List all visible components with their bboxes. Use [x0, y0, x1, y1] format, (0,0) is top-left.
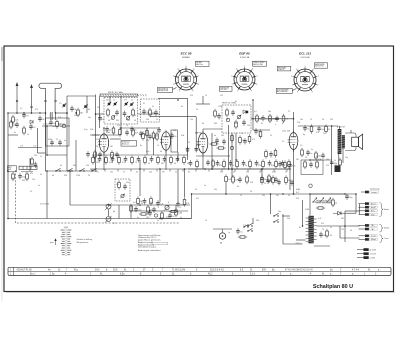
wire vertical x184 — [184, 169, 186, 197]
oscillator coil L2 — [111, 116, 115, 120]
wire vertical x196 — [195, 117, 197, 152]
svg-text:9: 9 — [251, 91, 252, 93]
wire phono bus — [213, 228, 232, 230]
svg-text:2: 2 — [173, 84, 174, 86]
svg-text:4,7k: 4,7k — [122, 162, 125, 164]
resistor R27 — [256, 114, 262, 123]
label box at ECL 113 top right — [315, 63, 328, 68]
svg-text:A 505-11: A 505-11 — [122, 143, 129, 146]
svg-text:60: 60 — [52, 175, 54, 177]
phono jack J1 — [219, 229, 225, 239]
svg-text:70: 70 — [123, 172, 125, 174]
capacitor C49 — [189, 160, 193, 166]
svg-text:Schaltplan 80 U: Schaltplan 80 U — [313, 284, 353, 290]
wire vertical x331 — [331, 126, 333, 175]
wire vertical feeder x95 — [95, 95, 97, 171]
svg-text:0,1µ: 0,1µ — [146, 151, 149, 153]
wire to S2 — [252, 218, 254, 224]
resistor R51 — [223, 159, 226, 168]
svg-text:5n: 5n — [180, 217, 182, 219]
svg-text:10k: 10k — [214, 189, 217, 191]
wire between pots — [108, 209, 110, 216]
svg-text:47k: 47k — [252, 139, 255, 141]
svg-text:470: 470 — [250, 182, 253, 184]
svg-text:470: 470 — [220, 172, 223, 174]
wire y118.8 af bus — [251, 118, 294, 120]
resistor R53 — [236, 159, 239, 168]
resistor R77 — [259, 129, 262, 138]
IF transformer can 2 (dashed) — [141, 99, 160, 122]
FM dipole antenna — [39, 83, 62, 122]
resistor R40 — [326, 229, 329, 238]
wire to terminal group 1 — [345, 210, 360, 212]
resistor R49 — [196, 159, 199, 168]
capacitor C11 — [139, 131, 145, 137]
svg-text:L 71: L 71 — [20, 146, 23, 148]
capacitor C77 — [269, 151, 275, 157]
svg-text:gedr.: gedr. — [50, 241, 54, 244]
capacitor C20 — [137, 156, 141, 162]
svg-text:8,5a: 8,5a — [120, 274, 125, 276]
resistor R30 — [310, 124, 313, 133]
wire V3 anode up — [202, 129, 204, 133]
wire tube V2 cathode down — [165, 150, 167, 170]
potentiometer P2 tone — [105, 216, 112, 223]
capacitor C30 — [261, 115, 267, 121]
svg-text:8n: 8n — [264, 179, 266, 181]
svg-text:6: 6 — [252, 69, 253, 71]
svg-text:8: 8 — [198, 84, 199, 86]
svg-text:Ant L: Ant L — [371, 210, 375, 213]
svg-text:TA 1: TA 1 — [371, 224, 374, 227]
svg-text:7: 7 — [318, 76, 319, 78]
svg-text:70: 70 — [26, 116, 28, 118]
svg-text:40: 40 — [88, 109, 90, 111]
svg-text:70: 70 — [135, 162, 137, 164]
wire y194 seg r — [310, 193, 345, 195]
wire x176 stub — [175, 205, 177, 211]
voltage measurement note — [138, 234, 168, 252]
wire vertical x232 — [231, 133, 233, 169]
svg-text:47k: 47k — [30, 173, 33, 175]
svg-text:8n: 8n — [316, 156, 318, 158]
svg-text:4n: 4n — [64, 140, 66, 142]
selector arrows — [312, 198, 331, 203]
svg-text:ECC 85: ECC 85 — [181, 52, 192, 56]
svg-text:Masse: Masse — [371, 239, 376, 241]
wire S3 right — [282, 215, 290, 217]
capacitor C53 — [229, 160, 233, 166]
capacitor C32 — [303, 125, 309, 131]
trimmer capacitor CT3 — [108, 103, 110, 105]
svg-text:130: 130 — [22, 177, 25, 179]
svg-text:5k: 5k — [60, 126, 62, 128]
resistor R1 — [12, 115, 19, 124]
wire bus y155 — [92, 154, 188, 156]
svg-text:1n: 1n — [157, 220, 159, 222]
svg-text:25µ: 25µ — [287, 218, 290, 220]
resistor R34 — [118, 180, 121, 189]
svg-text:8µ: 8µ — [303, 134, 305, 136]
svg-text:2,2k: 2,2k — [15, 120, 19, 122]
capacitor C87 — [49, 120, 55, 126]
lead from box to ECL 113 — [292, 89, 296, 91]
svg-text:SOCKEL: SOCKEL — [220, 89, 227, 91]
wire x226 to bus — [225, 184, 227, 195]
svg-text:50: 50 — [96, 146, 98, 148]
switch contact S1d — [91, 168, 96, 171]
wire x153 down — [153, 138, 155, 155]
terminal sw 127V — [357, 252, 377, 255]
svg-text:0,5M: 0,5M — [106, 132, 110, 134]
capacitor C34 — [330, 160, 338, 166]
svg-text:5: 5 — [305, 66, 306, 68]
resistor R73 — [216, 147, 225, 149]
svg-text:10n: 10n — [292, 166, 295, 168]
svg-text:30: 30 — [330, 235, 332, 237]
svg-text:220: 220 — [96, 162, 99, 164]
resistor R19 — [144, 155, 147, 164]
capacitor C5 — [123, 111, 127, 117]
capacitor C86 — [194, 146, 200, 152]
IF transformer box at V2 — [171, 130, 178, 152]
svg-text:0,1: 0,1 — [143, 103, 145, 105]
svg-text:5k: 5k — [196, 109, 198, 111]
svg-text:10k: 10k — [110, 172, 113, 174]
wire V2 anode right — [170, 137, 173, 139]
wire bus y218.5 — [8, 218, 192, 220]
svg-text:0,1: 0,1 — [20, 108, 22, 110]
capacitor C36 — [123, 184, 127, 190]
svg-text:Lautspr.: Lautspr. — [371, 191, 378, 194]
AM oscillator shield box (dashed) — [115, 179, 130, 201]
wire y126 to output transformer — [298, 125, 339, 127]
capacitor C3 — [70, 106, 76, 112]
capacitor C18 — [124, 156, 128, 162]
resistor R86 — [316, 160, 319, 169]
terminal TA 1 — [359, 224, 378, 227]
svg-text:24,3: 24,3 — [95, 270, 100, 272]
capacitor C82 — [290, 180, 294, 186]
input filter coil L1 — [50, 112, 51, 120]
svg-text:0,4: 0,4 — [254, 111, 256, 113]
resistor R3 — [107, 108, 110, 117]
wire vertical x160 — [159, 169, 161, 202]
svg-text:125: 125 — [173, 130, 176, 132]
capacitor C65 — [274, 177, 278, 183]
wire long bus y169 — [90, 168, 290, 170]
svg-text:70: 70 — [322, 229, 324, 231]
svg-text:220: 220 — [330, 119, 333, 121]
svg-text:SCHALT PL 80: SCHALT PL 80 — [17, 269, 33, 272]
svg-text:8: 8 — [256, 84, 257, 86]
svg-text:3: 3 — [231, 76, 232, 78]
wire x302 down — [302, 200, 304, 226]
switch contact S4 — [243, 224, 248, 227]
svg-text:10: 10 — [33, 127, 35, 129]
svg-text:2.Laut: 2.Laut — [384, 237, 389, 240]
extra dots r3 — [46, 125, 346, 227]
wire x47 mid — [46, 126, 48, 155]
svg-text:AM 21xx: AM 21xx — [196, 63, 203, 66]
wire vertical x212 — [211, 133, 213, 170]
resistor R31 — [325, 124, 330, 133]
terminal 2.Lspr — [359, 235, 378, 238]
potentiometer P1 volume — [105, 203, 112, 210]
svg-text:10n: 10n — [160, 204, 163, 206]
svg-text:5n: 5n — [172, 216, 174, 218]
switch contact S2b — [247, 228, 252, 231]
svg-text:50: 50 — [174, 163, 176, 165]
trimmer capacitor CT6 — [130, 103, 132, 105]
oscillator coil L3 — [126, 116, 130, 120]
resistor R55 — [249, 159, 252, 168]
svg-text:100: 100 — [221, 135, 224, 137]
wire x137-160 y114 — [138, 113, 161, 115]
svg-text:Ant M: Ant M — [371, 206, 376, 209]
more tiny labels — [30, 95, 344, 231]
capacitor C94 — [86, 151, 90, 157]
svg-text:5: 5 — [244, 66, 245, 68]
svg-text:47 41 4 42 38 8 5 41 31 4 8: 47 41 4 42 38 8 5 41 31 4 8 — [285, 270, 313, 272]
svg-text:b: b — [168, 202, 169, 204]
resistor R32 — [12, 172, 15, 181]
svg-text:15k: 15k — [190, 119, 193, 121]
wire box to feeder — [96, 113, 105, 115]
label box at EBF 80 bottom left — [220, 86, 233, 91]
svg-text:1k: 1k — [328, 129, 330, 131]
resistor R15 — [118, 155, 121, 164]
wire to terminal group 2 — [350, 225, 360, 227]
svg-text:0,5M: 0,5M — [48, 139, 52, 141]
capacitor C28 — [231, 110, 235, 116]
wire transformer lead down 1 — [338, 154, 340, 166]
capacitor C14 — [98, 156, 102, 162]
wire y153 stub — [38, 152, 46, 154]
band filter box — [46, 118, 70, 146]
svg-text:Erde: Erde — [371, 213, 375, 216]
svg-text:1: 1 — [297, 91, 298, 93]
switch contact S1b — [67, 168, 72, 171]
svg-text:0,1: 0,1 — [195, 189, 197, 191]
resistor R42 — [23, 126, 26, 135]
wire V3 cathode down — [202, 153, 204, 169]
capacitor C44 — [148, 134, 152, 140]
resistor R6 — [149, 108, 155, 117]
wire x262 ext — [261, 169, 263, 178]
svg-text:D 15.893: D 15.893 — [40, 204, 50, 206]
wire y155 left — [47, 154, 67, 156]
svg-text:1n: 1n — [27, 134, 29, 136]
wire to V4 grid — [293, 112, 295, 133]
svg-text:125: 125 — [246, 172, 249, 174]
AM antenna terminal box — [8, 166, 17, 172]
ferrite rod antenna L5 — [19, 166, 37, 172]
svg-text:250: 250 — [247, 125, 250, 127]
antenna lead junction dots — [45, 100, 47, 102]
svg-text:Tonab.: Tonab. — [384, 209, 390, 211]
svg-text:60: 60 — [202, 123, 204, 125]
svg-text:a: a — [158, 207, 159, 209]
wire mains to transformer — [309, 194, 311, 216]
capacitor C43 — [29, 124, 35, 130]
wire V1 anode to IF — [110, 138, 121, 140]
frame shadow — [6, 292, 395, 294]
svg-text:220: 220 — [296, 198, 299, 200]
svg-text:4,7k: 4,7k — [117, 125, 120, 127]
label box at ECL 113 left — [277, 66, 291, 71]
wire stub — [118, 205, 120, 211]
svg-text:10n: 10n — [88, 117, 91, 119]
fuse F1 — [309, 184, 312, 187]
svg-text:300: 300 — [186, 151, 189, 153]
svg-text:40: 40 — [160, 151, 162, 153]
wire y104 stub — [196, 103, 210, 105]
FM antenna arrow A1 — [16, 82, 19, 113]
wire stub x203 — [202, 96, 204, 104]
svg-text:2n: 2n — [170, 141, 172, 143]
svg-text:9: 9 — [312, 91, 313, 93]
resistor R10 — [152, 131, 158, 140]
wire antenna leg2 — [55, 113, 57, 120]
svg-text:10n: 10n — [278, 211, 281, 213]
svg-text:UKW: UKW — [64, 227, 69, 229]
svg-text:30: 30 — [42, 119, 44, 121]
resistor R69 — [147, 205, 153, 214]
svg-text:10n: 10n — [321, 129, 324, 131]
svg-text:0,5M: 0,5M — [272, 172, 276, 174]
resistor R68 — [130, 204, 133, 213]
svg-text:1k: 1k — [232, 165, 234, 167]
tube V1a ECC85 — [98, 132, 109, 155]
tube socket U2 EBF 80 (pin view) — [231, 52, 257, 93]
resistor R43 — [142, 131, 145, 140]
wire x290 down — [289, 169, 291, 190]
resistor R78 — [265, 149, 268, 158]
wire into tube V1 grid — [92, 134, 99, 136]
svg-text:4: 4 — [178, 69, 179, 71]
svg-text:4: 4 — [296, 69, 297, 71]
wire vertical x99 — [99, 96, 101, 128]
capacitor C6 — [105, 126, 111, 132]
resistor R5 — [112, 126, 115, 135]
svg-text:470: 470 — [190, 95, 193, 97]
svg-text:5n: 5n — [311, 149, 313, 151]
svg-text:2k: 2k — [335, 203, 337, 205]
resistor R8 — [132, 128, 139, 137]
svg-text:2n: 2n — [152, 106, 154, 108]
junction dots y113 — [23, 112, 76, 113]
resistor R70 — [161, 211, 164, 220]
svg-text:40: 40 — [60, 165, 62, 167]
terminal Ant U — [359, 202, 378, 205]
svg-text:250: 250 — [126, 182, 129, 184]
svg-text:125: 125 — [96, 139, 99, 141]
svg-text:5n: 5n — [307, 129, 309, 131]
wire y130 — [253, 129, 270, 131]
svg-text:100: 100 — [74, 115, 77, 117]
capacitor C16 — [111, 156, 115, 162]
capacitor C37 — [143, 198, 147, 204]
wire x283 down — [282, 214, 284, 244]
svg-text:6,8k: 6,8k — [90, 129, 93, 131]
svg-text:6,8k: 6,8k — [271, 165, 274, 167]
resistor R61 — [246, 175, 249, 184]
output transformer T1 secondary — [342, 135, 345, 148]
svg-text:3,1 b: 3,1 b — [250, 274, 256, 276]
svg-text:1k: 1k — [157, 145, 159, 147]
resistor R4 — [132, 108, 135, 117]
capacitor C64 — [260, 176, 266, 182]
svg-text:220: 220 — [262, 195, 265, 197]
resistor R35 — [137, 196, 143, 205]
svg-text:12k: 12k — [234, 123, 237, 125]
parts list table — [8, 267, 391, 275]
resistor R85 — [304, 160, 307, 169]
resistor R89 — [139, 213, 148, 215]
capacitor C8 — [142, 109, 148, 115]
svg-text:AM BECKER: AM BECKER — [158, 89, 169, 92]
table row divider — [8, 270, 391, 272]
wire transformer bottom right — [314, 245, 330, 247]
svg-text:4,7k: 4,7k — [318, 218, 321, 220]
potentiometer P3 — [164, 205, 170, 211]
svg-text:71 45 5 124h: 71 45 5 124h — [172, 270, 186, 272]
resistor R17 — [131, 155, 134, 164]
svg-text:220: 220 — [149, 172, 152, 174]
svg-text:8n: 8n — [188, 172, 190, 174]
svg-text:4,7k: 4,7k — [135, 133, 139, 135]
capacitor C41 — [319, 232, 327, 238]
resistor R72 — [209, 143, 218, 145]
svg-text:Tonabn.: Tonabn. — [384, 228, 391, 230]
capacitor C48 — [217, 113, 221, 119]
capacitor C42 — [15, 122, 19, 128]
label box at ECC 85 top right — [196, 61, 210, 66]
wire y218 to corner — [160, 218, 192, 220]
svg-text:30: 30 — [134, 120, 136, 122]
svg-text:a: a — [275, 124, 276, 126]
svg-text:0,1: 0,1 — [113, 223, 115, 225]
wire rectifier out — [347, 212, 356, 214]
tube V3 EBF80 — [197, 131, 208, 155]
wire switch bus y171 — [45, 170, 96, 172]
svg-text:3: 3 — [173, 76, 174, 78]
wire y160 right — [310, 159, 332, 161]
wire transformer to speaker bottom — [345, 147, 356, 151]
tube socket U1 ECC 85 (pin view) — [173, 52, 199, 93]
ratio coil L4 — [237, 115, 241, 119]
svg-text:5n: 5n — [14, 132, 16, 134]
wire x110 stub — [109, 96, 111, 104]
svg-text:1,2k: 1,2k — [297, 122, 300, 124]
svg-text:470: 470 — [146, 140, 149, 142]
capacitor C89 — [58, 140, 62, 146]
svg-text:300: 300 — [73, 165, 76, 167]
capacitor C68 — [345, 194, 353, 200]
resistor R28 — [269, 114, 277, 123]
capacitor C22 — [150, 156, 154, 162]
coil L8 — [154, 214, 157, 217]
wire vertical x270 — [270, 194, 272, 214]
capacitor C9 — [154, 110, 158, 116]
resistor R45 — [94, 150, 97, 159]
terminal Ant M — [359, 206, 378, 209]
capacitor C38 — [156, 200, 163, 206]
capacitor C35 — [18, 173, 25, 179]
svg-text:1 2a: 1 2a — [50, 274, 55, 276]
wire x131 stub — [130, 205, 132, 219]
